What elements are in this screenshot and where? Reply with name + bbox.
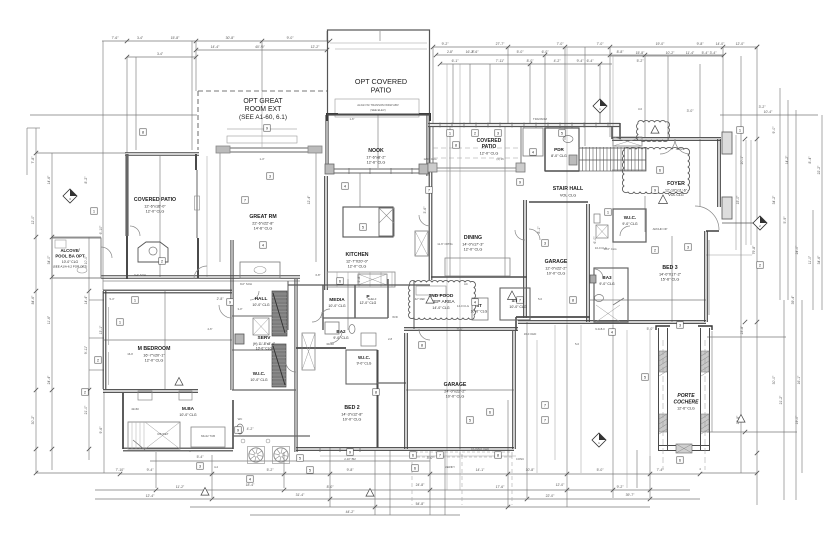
witness vline x565 [564, 47, 566, 140]
ba3 shower X [596, 305, 620, 322]
keynote box [360, 224, 367, 231]
svg-text:3’-0": 3’-0" [687, 109, 695, 113]
wall bed2 east [377, 350, 379, 448]
svg-text:34’-6": 34’-6" [817, 255, 821, 265]
svg-text:VERIFY: VERIFY [445, 465, 455, 469]
wall dining west [429, 168, 432, 280]
coat closet [523, 128, 543, 156]
ref line y115 right [720, 114, 818, 116]
wall nook west [326, 115, 328, 174]
svg-text:HALL: HALL [255, 296, 268, 302]
ref line y128 left [27, 127, 40, 129]
witness vline bottom x508 [507, 400, 509, 507]
mba shower door diag [133, 440, 145, 450]
dim tick [194, 39, 198, 43]
garage door dash 1 [410, 452, 460, 457]
ba3 shower door diag [613, 298, 624, 305]
witness vline bottom x613 [612, 325, 614, 498]
section diamond left [63, 189, 77, 203]
dim line right B [756, 47, 758, 505]
nook window mullions [349, 168, 412, 174]
dim line top E [436, 54, 724, 56]
witness vline x470 [469, 64, 471, 123]
svg-text:5’-9": 5’-9" [783, 216, 787, 224]
keynote box [242, 197, 249, 204]
svg-text:12’-4": 12’-4" [307, 195, 311, 205]
dim tick [643, 53, 647, 57]
dim tick [34, 447, 38, 451]
svg-text:RB WET: RB WET [158, 432, 169, 436]
serv washer box [235, 334, 244, 344]
wall garage west [405, 333, 408, 449]
wall nook east [427, 115, 429, 176]
dim tick [118, 472, 122, 476]
label BED 3 [659, 265, 682, 281]
driveway dash 2 [461, 455, 463, 505]
svg-text:PATIO: PATIO [482, 144, 497, 150]
svg-text:30’-0": 30’-0" [772, 375, 776, 385]
driveway vline 627 [626, 330, 628, 488]
witness vline bottom x156 [155, 452, 157, 488]
dim tick [755, 451, 759, 455]
label BA2 [333, 329, 349, 340]
svg-text:AC: AC [464, 282, 468, 286]
label BED 2 [341, 405, 363, 421]
witness vline x700 [699, 64, 701, 137]
fireplace box [138, 242, 168, 262]
svg-text:39’-7": 39’-7" [626, 493, 636, 497]
keynote box [605, 209, 612, 216]
svg-text:2ND FOOD: 2ND FOOD [429, 293, 454, 299]
great room south cabinet oval [254, 267, 266, 274]
witness vline kitchen [359, 173, 361, 207]
svg-text:84’-6": 84’-6" [31, 295, 35, 305]
dim tick [125, 55, 129, 59]
svg-text:4’-2": 4’-2" [554, 59, 562, 63]
dim line bottom A [36, 472, 120, 474]
dim line top C [127, 56, 196, 58]
door arc serv [250, 291, 259, 300]
svg-text:22’-6"x22’-8": 22’-6"x22’-8" [252, 221, 274, 225]
svg-text:8’-6": 8’-6" [472, 50, 480, 54]
patio-right west col [432, 127, 434, 168]
witness vline foyer b [699, 139, 701, 207]
svg-text:GARAGE: GARAGE [444, 382, 467, 388]
keynote box [337, 278, 344, 285]
svg-text:M BEDROOM: M BEDROOM [138, 346, 171, 352]
door arc mbed [219, 305, 232, 318]
pdr toilet [563, 136, 573, 143]
stor box [500, 288, 530, 320]
dim tick [210, 497, 214, 501]
label COVERED PATIO right [477, 138, 502, 155]
witness vline bottom x567 [566, 325, 568, 507]
porte cochere centerline E [704, 340, 706, 470]
witness vline x645 [644, 56, 646, 137]
door arc wic-m [286, 362, 296, 372]
pantry X [415, 231, 428, 256]
diamond leader right [722, 222, 753, 224]
svg-text:ARCHD OP: ARCHD OP [653, 227, 668, 231]
svg-text:5’-0": 5’-0" [597, 468, 605, 472]
svg-text:8’-1": 8’-1" [537, 226, 541, 234]
kitchen cooktop X [379, 208, 394, 223]
svg-text:COCHERE: COCHERE [673, 400, 699, 406]
driveway vline 581 [580, 325, 582, 473]
svg-text:7’-11": 7’-11" [496, 59, 505, 63]
entry porch pier S [722, 197, 732, 219]
svg-text:1-6": 1-6" [349, 117, 354, 121]
svg-text:9’-2": 9’-2" [442, 42, 450, 46]
label DINING [462, 235, 484, 251]
dim tick [721, 45, 725, 49]
svg-text:BED 3: BED 3 [662, 265, 677, 271]
door arc ba3 [594, 269, 603, 278]
wall garage-upper south [516, 316, 590, 318]
svg-text:6’-4": 6’-4" [587, 59, 595, 63]
dim tick [50, 275, 54, 279]
svg-text:14’-0"X17’-2": 14’-0"X17’-2" [659, 272, 682, 276]
label GARAGE main [444, 382, 467, 398]
2nd food prep cloud [409, 281, 476, 320]
svg-text:14’-1": 14’-1" [476, 468, 486, 472]
svg-text:10-0" CLG: 10-0" CLG [603, 247, 616, 251]
door arc media [312, 312, 322, 322]
label ALCOVE POOL BA OPT [53, 248, 88, 269]
witness vline x380 [379, 31, 381, 41]
svg-text:CONC: CONC [516, 457, 524, 461]
svg-text:12-0" CLG: 12-0" CLG [423, 157, 436, 161]
witness hline bed3 [590, 299, 706, 301]
keynote box [227, 299, 234, 306]
keynote box [426, 187, 433, 194]
alcove fixture [55, 240, 66, 248]
svg-text:16-8: 16-8 [127, 352, 133, 356]
wall ba2 south / bed2 north [296, 347, 346, 349]
keynote box [82, 389, 89, 396]
wall bed2 chase [377, 382, 406, 384]
opt covered patio outer [328, 30, 430, 115]
keynote box [235, 427, 242, 434]
dim tick [525, 497, 529, 501]
svg-text:9’-4": 9’-4" [577, 59, 585, 63]
bed2 south mullions [320, 447, 360, 452]
svg-text:7’-8": 7’-8" [31, 156, 35, 164]
driveway dash 3 [511, 455, 513, 505]
svg-text:30’-8": 30’-8" [226, 36, 236, 40]
kitchen appliance col [379, 208, 394, 236]
witness vline greatrm a [219, 152, 221, 262]
svg-text:GARAGE: GARAGE [545, 259, 568, 265]
svg-text:12’-0"x22’-2": 12’-0"x22’-2" [545, 266, 567, 270]
svg-text:9’-8": 9’-8" [347, 468, 355, 472]
dim tick [755, 45, 759, 49]
keynote box [297, 455, 304, 462]
dim tick [543, 53, 547, 57]
dim tick [438, 62, 442, 66]
svg-text:44’-2": 44’-2" [346, 510, 356, 514]
svg-text:12’-2": 12’-2" [311, 45, 321, 49]
svg-text:BA2: BA2 [336, 329, 346, 334]
svg-text:19’-0": 19’-0" [656, 42, 666, 46]
dim line top B [196, 49, 327, 51]
opt patio dim line 2 [335, 48, 427, 50]
witness vline bottom x430 [429, 451, 431, 515]
wall entry south [706, 230, 719, 232]
svg-text:W.I.C.: W.I.C. [624, 215, 637, 220]
svg-text:2-8: 2-8 [388, 337, 392, 341]
kitchen south cabinets [327, 272, 395, 287]
revision triangle g [366, 489, 374, 497]
dim line right C [779, 88, 781, 300]
keynote box [267, 173, 274, 180]
patio-left east slider line [196, 170, 198, 238]
dim tick [373, 505, 377, 509]
svg-text:14’-2": 14’-2" [785, 155, 789, 165]
wall patio-left south [101, 276, 300, 278]
svg-text:7’-0": 7’-0" [557, 42, 565, 46]
label 2ND FOOD PREP [427, 293, 455, 310]
svg-text:5’-2": 5’-2" [637, 59, 645, 63]
svg-text:PATIO: PATIO [371, 85, 392, 94]
svg-text:42" REF: 42" REF [415, 297, 426, 301]
stair small box [594, 214, 600, 223]
driveway vline 537 [536, 340, 538, 473]
opt great room ext top [198, 90, 327, 92]
dim tick [50, 235, 54, 239]
witness vline x600 [599, 64, 601, 110]
svg-text:6-8": 6-8" [315, 273, 320, 277]
svg-text:18’-4": 18’-4" [246, 483, 256, 487]
svg-text:7’-10": 7’-10" [116, 468, 126, 472]
svg-text:8’-0" CLG: 8’-0" CLG [551, 154, 567, 158]
svg-text:11’-6": 11’-6" [47, 315, 51, 324]
svg-text:15’-8": 15’-8" [636, 51, 646, 55]
dim line left E [102, 41, 104, 290]
ceiling fan 1 [248, 447, 265, 464]
label HALL [252, 296, 269, 307]
dim tick [743, 137, 747, 141]
wall mbed south [103, 390, 198, 393]
dim tick [87, 447, 91, 451]
wall mba west [122, 393, 124, 449]
witness vline bed3 [671, 236, 673, 322]
driveway dash 1 [411, 455, 413, 505]
svg-text:2-8": 2-8" [447, 50, 454, 54]
wall bed2 south [296, 448, 406, 451]
svg-text:10’-0" CLG: 10’-0" CLG [343, 417, 362, 421]
label KITCHEN [345, 252, 368, 268]
keynote box [677, 322, 684, 329]
keynote box [685, 244, 692, 251]
label NOOK [366, 148, 386, 164]
ba2 shower [361, 333, 376, 346]
svg-text:5’-2": 5’-2" [267, 468, 275, 472]
svg-text:3-0": 3-0" [237, 307, 242, 311]
stair rail [545, 170, 579, 172]
wall patio-left west hatched [125, 154, 128, 236]
svg-text:(SEE A1-60, 6.1): (SEE A1-60, 6.1) [239, 114, 287, 121]
svg-text:2-6": 2-6" [207, 327, 212, 331]
porte wall vert right [711, 331, 713, 432]
nook post W [325, 164, 334, 174]
wall serv top [232, 315, 272, 317]
dim tick [87, 289, 91, 293]
patio-right east col [520, 127, 522, 168]
garage step wall [515, 317, 517, 331]
mba shower [128, 422, 180, 449]
keynote box [570, 297, 577, 304]
keynote box [652, 247, 659, 254]
keynote box [677, 457, 684, 464]
keynote box [657, 167, 664, 174]
witness vline x508 [507, 47, 509, 123]
svg-text:3-4": 3-4" [137, 36, 144, 40]
svg-text:14’-0": 14’-0" [716, 42, 726, 46]
svg-text:17’-6": 17’-6" [496, 485, 506, 489]
witness vline bottom x330 [329, 447, 331, 507]
witness vline dining a [449, 127, 451, 277]
witness vline bottom x212 [211, 455, 213, 498]
svg-text:1-4": 1-4" [259, 157, 264, 161]
dim tick [328, 497, 332, 501]
witness vline x490 [489, 64, 491, 123]
foyer transom X [613, 137, 642, 146]
dim line bottom D [190, 506, 650, 508]
dining window seat [445, 258, 510, 276]
svg-text:14’-4": 14’-4" [84, 295, 88, 305]
svg-text:12’-0" CLG: 12’-0" CLG [464, 247, 483, 251]
revision triangle e [737, 415, 745, 423]
dim tick [34, 471, 38, 475]
dim line top G [610, 55, 723, 57]
keynote box [467, 417, 474, 424]
staircase treads [579, 147, 646, 171]
mba shower hatch [128, 422, 144, 449]
keynote box [419, 342, 426, 349]
witness vline greatrm b [315, 152, 317, 262]
diamond leader top [599, 113, 601, 123]
door arc garage upper [515, 230, 525, 240]
patio-right beam dash [433, 147, 521, 149]
witness vline x530 [529, 64, 531, 123]
door arc bed2 [330, 331, 342, 343]
svg-text:8’-0": 8’-0" [327, 485, 335, 489]
svg-text:9’-0" CLG: 9’-0" CLG [599, 282, 615, 286]
door arc alcove [101, 247, 112, 258]
dim tick [755, 45, 759, 49]
svg-text:14-0 CLG: 14-0 CLG [457, 304, 469, 308]
porch bottom line [706, 254, 752, 256]
dim tick [648, 472, 652, 476]
svg-text:12’-6"x16’-0": 12’-6"x16’-0" [144, 204, 166, 208]
entry porch pier N [722, 132, 732, 154]
keynote box [447, 130, 454, 137]
witness vline bottom x284 [283, 452, 285, 488]
svg-text:PDR: PDR [554, 147, 564, 152]
svg-text:12’-0": 12’-0" [31, 215, 35, 225]
witness vline bottom x650 [649, 456, 651, 498]
keynote box [197, 463, 204, 470]
svg-text:11’-2": 11’-2" [176, 485, 185, 489]
kitchen cabinet mullions [337, 272, 392, 287]
dim tick [282, 472, 286, 476]
svg-text:STAIR HALL: STAIR HALL [553, 186, 584, 192]
svg-text:30’-2": 30’-2" [31, 415, 35, 425]
label MEDIA [328, 297, 345, 308]
svg-text:7’-6": 7’-6" [112, 36, 120, 40]
keynote box [652, 187, 659, 194]
svg-text:10’-4": 10’-4" [764, 110, 774, 114]
serv stair lower [272, 344, 286, 387]
keynote box [342, 183, 349, 190]
svg-text:12’-0" CLG: 12’-0" CLG [360, 301, 377, 305]
opt patio dim line 1 [330, 42, 427, 44]
svg-text:(4) 16: (4) 16 [496, 157, 504, 161]
svg-text:9’-0" CLG: 9’-0" CLG [622, 222, 638, 226]
outlet circle 1 [241, 439, 245, 443]
dim tick [50, 447, 54, 451]
revision triangle h [651, 126, 659, 134]
keynote box [307, 467, 314, 474]
svg-text:10’-0": 10’-0" [84, 255, 88, 265]
patio-right beam dash2 [433, 157, 521, 159]
label SERV [253, 335, 276, 351]
keynote box [117, 319, 124, 326]
keynote box [159, 258, 166, 265]
svg-text:12’-0": 12’-0" [556, 483, 566, 487]
door arc wic-r [620, 226, 630, 236]
svg-text:(H) 11’-8"x8’-4": (H) 11’-8"x8’-4" [253, 342, 276, 346]
revision triangle b [508, 291, 517, 300]
dim line right G [821, 115, 823, 310]
keynote box [757, 262, 764, 269]
patio-left slider center [195, 196, 200, 210]
svg-text:16-0x8-0 OHD: 16-0x8-0 OHD [471, 447, 489, 451]
svg-text:7’-0": 7’-0" [597, 42, 605, 46]
dim tick [282, 488, 286, 492]
label GREAT RM [249, 214, 276, 230]
label M.BA [179, 406, 196, 417]
mbed west window 1 [108, 307, 110, 345]
svg-text:27’-7": 27’-7" [496, 42, 506, 46]
witness vline long 567b [566, 47, 568, 325]
dim line bottom E [150, 460, 430, 462]
dim line left D [88, 237, 90, 460]
dim line bottom A2 [700, 472, 757, 474]
svg-text:9’-2": 9’-2" [617, 485, 625, 489]
dim line right E [801, 300, 803, 473]
dim tick [194, 48, 198, 52]
svg-text:WC: WC [238, 417, 243, 421]
witness vline bottom x527 [526, 322, 528, 498]
witness vline x192 [191, 41, 193, 150]
great room south cabinet [240, 262, 280, 278]
svg-text:22’-2": 22’-2" [817, 165, 821, 175]
wall garage south [406, 448, 514, 451]
svg-text:OPT GREAT: OPT GREAT [243, 98, 283, 105]
svg-text:12’-0": 12’-0" [736, 42, 746, 46]
svg-text:ALIGN: ALIGN [676, 147, 684, 151]
witness hline left mid [89, 299, 104, 301]
svg-text:COVERED PATIO: COVERED PATIO [134, 197, 176, 203]
dim line right C2 [783, 300, 785, 500]
keynote box [542, 240, 549, 247]
foyer entry arc W [660, 139, 675, 154]
witness hline garage [406, 389, 514, 391]
svg-text:5’-8": 5’-8" [357, 275, 361, 283]
witness vline garage [459, 331, 461, 449]
